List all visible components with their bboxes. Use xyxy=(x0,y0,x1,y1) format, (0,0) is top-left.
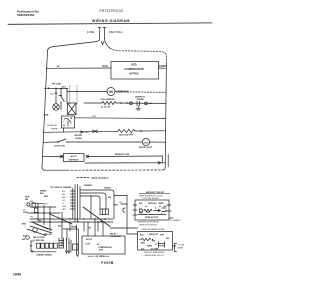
svg-text:GRN/YL: GRN/YL xyxy=(104,187,112,189)
wire h3 xyxy=(32,202,44,204)
svg-text:MULLION HTR: MULLION HTR xyxy=(119,134,133,136)
left harness cluster xyxy=(22,190,73,239)
wire hook 1 xyxy=(80,190,114,219)
svg-text:WIRING DIAGRAM: WIRING DIAGRAM xyxy=(92,19,130,23)
svg-text:AUTO: AUTO xyxy=(71,155,77,158)
svg-text:COM: COM xyxy=(85,243,90,245)
svg-text:(NEUTRAL): (NEUTRAL) xyxy=(109,30,123,34)
svg-text:DEFROST HTR: DEFROST HTR xyxy=(115,154,130,156)
svg-text:2: 2 xyxy=(63,121,64,123)
small relay pocket box xyxy=(73,244,79,250)
label mullion heater xyxy=(119,134,133,136)
svg-text:M-PTAG: M-PTAG xyxy=(129,72,138,75)
wire riser a xyxy=(74,185,76,223)
svg-text:WH OR GRN: WH OR GRN xyxy=(33,237,45,239)
wire heater row right xyxy=(116,102,166,104)
wire compressor to right bus xyxy=(159,67,167,69)
svg-text:DEFROST HEATER AND: DEFROST HEATER AND xyxy=(144,251,165,254)
resistor mullion heater xyxy=(118,129,135,132)
header rule xyxy=(8,23,212,24)
svg-text:LIGHT SW: LIGHT SW xyxy=(54,145,66,147)
wire v1 xyxy=(37,203,39,221)
svg-text:TERM: TERM xyxy=(147,246,153,248)
svg-text:N.C.: N.C. xyxy=(141,248,145,250)
freezer compartment dashed lines xyxy=(70,86,77,105)
wire diag3 xyxy=(27,229,46,236)
svg-text:DEFROST POSITION: DEFROST POSITION xyxy=(139,224,157,226)
compressor U1 xyxy=(103,62,168,80)
wire long mid row xyxy=(75,117,166,120)
bracket left xyxy=(123,208,125,212)
wire h1 xyxy=(30,206,56,208)
timer motor xyxy=(139,209,142,212)
freezer door switch S1 xyxy=(50,94,64,110)
svg-text:WH/BK: WH/BK xyxy=(71,226,78,228)
wire v2 xyxy=(43,205,45,225)
freezer light L1 xyxy=(53,104,60,111)
wire drops to relay box xyxy=(87,222,89,236)
label coil heater xyxy=(100,98,115,109)
svg-text:GRN: GRN xyxy=(62,206,67,208)
svg-text:COMPRESSOR: COMPRESSOR xyxy=(98,247,112,249)
svg-text:BLK: BLK xyxy=(140,235,145,237)
terminal block xyxy=(32,203,35,207)
defrost timer T1 xyxy=(47,116,74,131)
title heater detail xyxy=(142,228,165,231)
wire adc row right xyxy=(89,155,163,158)
wire cond fan row xyxy=(67,90,107,92)
extra labels xyxy=(30,201,48,219)
svg-text:TIMER: TIMER xyxy=(51,129,58,131)
junction dots xyxy=(37,206,50,222)
contact ladder xyxy=(159,242,165,248)
light switch S2 xyxy=(54,139,68,147)
wire note dashed xyxy=(88,256,110,258)
svg-text:DEFROST: DEFROST xyxy=(149,234,159,236)
svg-text:RED: RED xyxy=(114,204,119,206)
svg-text:MTR: MTR xyxy=(99,250,104,252)
title WIRING DIAGRAM xyxy=(92,19,130,23)
wire bus h1 xyxy=(30,218,113,220)
svg-text:DEFROST: DEFROST xyxy=(69,159,80,161)
svg-text:5-WB: 5-WB xyxy=(44,114,49,116)
wire diag1 xyxy=(30,226,52,233)
defrost heater detail box xyxy=(138,232,173,251)
svg-text:YL: YL xyxy=(62,203,64,205)
svg-text:INTER LIGHT: INTER LIGHT xyxy=(139,147,153,149)
resistor coil heater xyxy=(102,101,116,104)
svg-text:4: 4 xyxy=(71,123,72,125)
wire light row mid xyxy=(67,141,143,143)
svg-text:DEFROST HEATER DETAIL: DEFROST HEATER DETAIL xyxy=(142,228,165,231)
wire mullion row xyxy=(43,131,118,132)
svg-text:10/98: 10/98 xyxy=(13,273,21,277)
svg-text:FRZ COMP: FRZ COMP xyxy=(52,84,62,86)
wire cond fan to right bus xyxy=(115,91,127,93)
wire to cabinet stub xyxy=(169,218,182,222)
contact ticks xyxy=(55,93,62,95)
wire pair with dots xyxy=(66,238,70,253)
label 5-wb xyxy=(44,84,67,117)
svg-text:TIMER: TIMER xyxy=(178,248,184,250)
wire v drop mid xyxy=(61,212,63,246)
grommet circle a xyxy=(33,228,38,233)
left bus wire xyxy=(42,51,48,167)
interior light L2 xyxy=(139,139,153,149)
svg-text:(LINE): (LINE) xyxy=(87,30,95,34)
svg-text:COIL HEATER: COIL HEATER xyxy=(100,98,115,101)
wire contacts xyxy=(138,214,166,216)
wire diag2 xyxy=(32,222,48,229)
svg-text:2: 2 xyxy=(139,208,140,210)
wire mid-to-detail link xyxy=(110,227,138,229)
grommet circle b xyxy=(26,236,30,240)
connector arrow right xyxy=(86,155,89,158)
wire riser d xyxy=(72,188,74,219)
wire to defrost timer stub xyxy=(173,244,185,252)
svg-text:TIMER MOTOR: TIMER MOTOR xyxy=(145,217,158,219)
svg-text:RED: RED xyxy=(131,64,136,67)
svg-text:OVERLOAD: OVERLOAD xyxy=(110,235,121,238)
svg-text:BK WIRE: BK WIRE xyxy=(96,256,105,258)
svg-text:THERMOSTAT CIRCUIT: THERMOSTAT CIRCUIT xyxy=(144,254,165,257)
pin labels row xyxy=(139,203,167,208)
wire bottom dashed row xyxy=(42,167,165,170)
wire compressor row xyxy=(47,67,111,69)
connector pair arrows xyxy=(93,130,98,133)
junction dots mid xyxy=(61,218,105,222)
connector ladder xyxy=(59,238,64,248)
wire arrow inside xyxy=(154,210,161,212)
svg-text:THERM: THERM xyxy=(136,99,143,101)
wire main diagonal xyxy=(83,207,110,227)
resistor inside xyxy=(144,209,152,211)
wire drop to defrost thermostat xyxy=(66,91,68,103)
resistor heater xyxy=(142,238,151,241)
svg-text:21 OHM: 21 OHM xyxy=(151,248,158,250)
svg-text:TIMER IN DEFROST CYCLE: TIMER IN DEFROST CYCLE xyxy=(139,195,163,197)
wire arrow row xyxy=(85,162,165,164)
condenser fan motor M1 xyxy=(107,88,129,96)
wire drop to freezer light xyxy=(55,88,57,103)
label view of cabinet xyxy=(50,186,72,189)
node heater row xyxy=(120,102,122,104)
wire bus h2 xyxy=(30,221,113,223)
svg-text:WH/BRN: WH/BRN xyxy=(84,185,92,187)
right bus wire xyxy=(165,62,166,168)
svg-text:COMPRESSOR: COMPRESSOR xyxy=(124,67,143,71)
svg-text:GRN: GRN xyxy=(23,212,28,214)
wire riser b xyxy=(77,185,79,223)
tick marks xyxy=(133,204,137,206)
relay label outside xyxy=(110,233,121,239)
connector pins P2 xyxy=(37,243,41,248)
svg-text:4: 4 xyxy=(155,207,156,210)
wire detail feed vertical xyxy=(114,196,138,235)
connector arrow left xyxy=(60,155,63,158)
form number xyxy=(101,261,114,265)
date code xyxy=(13,273,21,277)
wire stub inside xyxy=(162,208,166,212)
node mullion xyxy=(140,130,142,132)
wire strip base xyxy=(31,251,56,253)
svg-text:CAM SWITCH SHOWN IN: CAM SWITCH SHOWN IN xyxy=(137,221,159,224)
interior labels mid xyxy=(139,207,162,219)
label wire colors xyxy=(75,135,83,140)
wire adc row left xyxy=(43,156,60,158)
ground stub xyxy=(136,106,140,110)
svg-text:GRN: GRN xyxy=(22,223,27,225)
header model number xyxy=(100,9,124,13)
svg-text:HTR: HTR xyxy=(160,235,165,237)
adaptive defrost control box xyxy=(64,154,85,162)
wire h2 xyxy=(28,212,61,214)
wire timer drop xyxy=(63,128,65,132)
wire freezer cluster feed xyxy=(44,87,67,89)
defrost detail title xyxy=(139,192,170,200)
svg-text:BLK: BLK xyxy=(40,193,45,195)
wire drop to switch xyxy=(60,89,62,97)
svg-text:DEFROST: DEFROST xyxy=(148,203,157,205)
svg-text:RED: RED xyxy=(141,243,146,245)
wire hook 3 xyxy=(80,196,100,209)
power plug (LINE)/(NEUTRAL) xyxy=(87,28,123,39)
wire pair drop xyxy=(67,225,79,256)
svg-text:RUN: RUN xyxy=(103,66,108,68)
svg-text:4L 3-15 W: 4L 3-15 W xyxy=(101,105,110,108)
svg-text:NO NC: NO NC xyxy=(86,239,93,241)
svg-text:RED BK: RED BK xyxy=(44,234,52,236)
left connector strip xyxy=(22,234,78,257)
wire jog right side xyxy=(163,155,169,167)
wire diag5 xyxy=(50,214,72,224)
extra junction dots xyxy=(33,212,44,222)
svg-text:RELAY +: RELAY + xyxy=(110,233,119,236)
svg-text:TO CABINET: TO CABINET xyxy=(170,219,182,222)
wire mid vertical xyxy=(90,196,92,219)
wire drops xyxy=(69,222,71,231)
defrost timer detail box xyxy=(133,200,171,220)
svg-text:RED: RED xyxy=(44,196,49,198)
middle harness riser xyxy=(30,185,119,257)
legend sdml models xyxy=(77,177,109,180)
relay overload chart box xyxy=(82,233,125,254)
interior dots xyxy=(145,206,166,211)
wire color list ticks xyxy=(62,191,75,211)
svg-text:YL RED TAN: YL RED TAN xyxy=(33,239,45,242)
svg-text:SDML MODELS: SDML MODELS xyxy=(91,177,109,180)
defrost limit thermostat xyxy=(130,96,148,105)
wire diag4 xyxy=(36,224,52,230)
svg-text:CABINET WIRING: CABINET WIRING xyxy=(36,253,52,256)
defrost thermostat xyxy=(68,103,77,115)
svg-text:F000B: F000B xyxy=(101,261,114,265)
svg-text:DEFROST: DEFROST xyxy=(47,125,58,127)
connector box mid xyxy=(100,209,109,215)
wire line side to left bus xyxy=(48,39,100,52)
svg-text:5995523456: 5995523456 xyxy=(17,13,34,17)
svg-text:TOP VIEW OF CABINET: TOP VIEW OF CABINET xyxy=(50,186,72,189)
grounding clip circle xyxy=(27,203,30,206)
note under timer box xyxy=(137,221,159,227)
wire v4 xyxy=(70,240,72,252)
svg-text:BLK: BLK xyxy=(23,236,28,238)
wire v3 xyxy=(49,207,51,231)
wire heater row stub xyxy=(84,102,102,104)
wire neutral side to right bus xyxy=(105,39,111,49)
wire mullion right xyxy=(135,130,166,132)
header publication number xyxy=(17,10,40,18)
node heater row 2 xyxy=(150,103,152,105)
node arrow on mullion row xyxy=(81,131,88,133)
wire light row xyxy=(43,141,58,143)
wire light row right xyxy=(150,141,166,143)
wire hook 2 xyxy=(80,193,106,209)
note under heater box xyxy=(144,251,165,257)
svg-text:FRT21PRCD3: FRT21PRCD3 xyxy=(100,9,124,13)
node taps on freezer feed xyxy=(48,88,68,90)
wire jog xyxy=(66,89,68,92)
svg-text:WH-BK: WH-BK xyxy=(76,138,83,140)
bracket xyxy=(31,241,33,251)
wire riser c xyxy=(79,187,81,219)
svg-text:TO DEF: TO DEF xyxy=(178,244,185,246)
wire h link xyxy=(63,228,78,230)
